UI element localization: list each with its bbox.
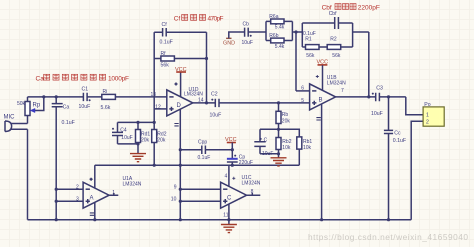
wire U1B output to C3	[336, 96, 406, 98]
svg-text:Cb: Cb	[243, 22, 250, 28]
capacitor C1 10uF	[79, 87, 91, 110]
capacitor C4 10uF	[112, 122, 133, 143]
resistor Rb1 10k	[297, 137, 313, 165]
op-amp U1B LM324N	[301, 75, 346, 110]
capacitor Cc 0.1uF	[384, 97, 406, 220]
annotation red text Cf	[174, 14, 224, 22]
svg-text:Po: Po	[424, 102, 430, 108]
svg-text:20k: 20k	[282, 118, 291, 124]
node X junction	[294, 30, 297, 33]
svg-text:9: 9	[174, 185, 177, 191]
resistor Rf 56k	[154, 51, 206, 69]
node: wiper joins signal wire	[42, 95, 45, 98]
svg-text:1000pF: 1000pF	[108, 75, 129, 82]
svg-text:10uF: 10uF	[79, 104, 91, 110]
resistor pair R6a/R6b 5.4k	[266, 14, 292, 50]
resistor Ri 5.6k	[101, 89, 116, 111]
svg-text:B: B	[319, 97, 323, 103]
resistor Rd1 20k	[136, 122, 151, 153]
U1D V+ stem + VCC	[180, 72, 182, 96]
resistor Rd2 20k	[152, 122, 167, 165]
capacitor C2 10uF	[210, 92, 222, 119]
U1C input wires from stem line	[180, 189, 220, 201]
svg-text:11: 11	[223, 212, 228, 218]
svg-text:5.4k: 5.4k	[275, 25, 285, 31]
svg-text:2200pF: 2200pF	[358, 5, 380, 12]
svg-text:6: 6	[301, 86, 304, 92]
svg-text:Cbf: Cbf	[322, 5, 332, 12]
C4/Rd1 bottom wire	[118, 143, 139, 145]
capacitor Cp 220uF	[227, 143, 253, 167]
svg-text:Cf: Cf	[162, 22, 168, 28]
op-amp U1A LM324N	[76, 176, 142, 208]
svg-text:C1: C1	[82, 87, 89, 93]
svg-text:Cc: Cc	[394, 130, 401, 136]
bias top wire	[260, 129, 299, 137]
wire U1D output to C2	[193, 102, 310, 104]
capacitor Cf 0.1uF	[154, 22, 206, 46]
svg-text:10uF: 10uF	[371, 111, 383, 117]
svg-text:10uF: 10uF	[242, 40, 253, 46]
GND stub to Cb	[229, 32, 245, 38]
U1A V+ stem from bias wire	[94, 165, 96, 188]
op-amp U1C LM324N	[171, 175, 261, 208]
wire corner down to connector pin 1	[406, 97, 423, 115]
C4/Rd1 top wire	[118, 121, 155, 123]
U1C V+ stem	[228, 165, 230, 186]
svg-text:LM324N: LM324N	[327, 81, 346, 87]
svg-text:56k: 56k	[306, 53, 315, 59]
capacitor C3 10uF	[371, 85, 383, 117]
svg-text:10uF: 10uF	[121, 135, 132, 141]
svg-text:56k: 56k	[161, 63, 170, 69]
svg-text:LM324N: LM324N	[184, 92, 203, 98]
svg-text:Cbf: Cbf	[329, 11, 337, 17]
svg-text:LM324N: LM324N	[123, 182, 142, 188]
wire Cb to R6 box	[248, 31, 266, 33]
svg-text:56k: 56k	[332, 53, 341, 59]
svg-text:LM324N: LM324N	[242, 181, 261, 187]
bias wire (VCC/2) long horizontal	[95, 164, 299, 166]
svg-text:5.6k: 5.6k	[101, 105, 111, 111]
U1B VCC	[317, 59, 329, 65]
VCC (bias)	[225, 137, 237, 143]
C/Rb2 bottom wire to ground	[260, 154, 279, 158]
svg-text:10: 10	[171, 197, 177, 203]
svg-text:10uF: 10uF	[210, 113, 222, 119]
microphone MIC	[4, 115, 28, 132]
node X vertical down to U1B pin 6	[295, 32, 297, 91]
wire top signal	[28, 96, 167, 98]
svg-text:13: 13	[151, 92, 157, 98]
svg-text:Rp: Rp	[33, 103, 41, 109]
U1B V- stem to rail	[321, 104, 323, 220]
Cbf / R1 R2 feedback box	[302, 11, 352, 59]
resistor Rb 20k	[276, 103, 290, 129]
svg-text:Rf: Rf	[161, 51, 167, 57]
svg-text:D: D	[177, 103, 182, 109]
svg-text:Ri: Ri	[103, 89, 108, 95]
svg-text:1: 1	[426, 113, 429, 119]
wire connector pin 2 down to rail	[411, 121, 423, 219]
svg-text:2: 2	[426, 119, 429, 125]
svg-text:R6b: R6b	[269, 33, 278, 39]
svg-text:10k: 10k	[282, 145, 291, 151]
U1B pin 6 stub	[296, 90, 310, 92]
svg-text:Ca: Ca	[36, 75, 45, 82]
ground (earth) under Rd1	[130, 154, 146, 162]
op-amp U1D LM324N	[151, 87, 204, 116]
capacitor C 10uF	[254, 129, 273, 157]
wire MIC bottom lead down to ground rail	[27, 129, 29, 219]
svg-text:R2: R2	[330, 36, 337, 42]
wire R6 box to node X	[292, 31, 302, 33]
wire MIC top lead up to signal wire	[27, 97, 29, 124]
capacitor Cb 10uF	[242, 22, 253, 46]
GND circled symbol	[223, 38, 235, 46]
resistor Rb2 10k	[276, 129, 292, 154]
svg-text:20k: 20k	[141, 137, 150, 143]
potentiometer Rp 50k	[17, 97, 44, 116]
svg-text:0.1uF: 0.1uF	[160, 40, 173, 46]
ground rail bottom	[28, 219, 412, 221]
svg-text:Cpp: Cpp	[198, 139, 207, 145]
U1C V- stem through rail to ground	[228, 204, 230, 224]
svg-text:10k: 10k	[303, 145, 312, 151]
svg-text:C2: C2	[211, 92, 218, 98]
annotation red text Cbf	[322, 4, 380, 12]
svg-text:MIC: MIC	[4, 115, 16, 121]
wire box to corner down to U1B output	[353, 32, 369, 97]
svg-text:0.1uF: 0.1uF	[62, 120, 75, 126]
svg-text:https://blog.csdn.net/weixin_4: https://blog.csdn.net/weixin_41659040	[308, 232, 468, 242]
U1A V- stem to rail	[94, 202, 96, 219]
svg-text:50k: 50k	[17, 101, 26, 107]
svg-text:220uF: 220uF	[239, 160, 253, 166]
svg-text:Cf: Cf	[174, 16, 181, 23]
annotation red text Ca	[36, 74, 130, 82]
svg-text:470pF: 470pF	[208, 16, 224, 23]
svg-text:20k: 20k	[157, 137, 166, 143]
U1D V- stem (pin 11) down to rail	[179, 109, 181, 220]
svg-text:A: A	[90, 195, 94, 201]
svg-text:4: 4	[225, 174, 228, 180]
svg-text:5.4k: 5.4k	[275, 44, 285, 50]
ground under U1C	[221, 225, 237, 233]
svg-text:R1: R1	[305, 36, 312, 42]
svg-text:GND: GND	[223, 41, 235, 47]
connector Po	[423, 102, 444, 126]
svg-text:R6a: R6a	[269, 14, 278, 20]
capacitor Cpp 0.1uF	[180, 139, 232, 161]
svg-text:C4: C4	[120, 127, 127, 133]
svg-text:5: 5	[301, 98, 304, 104]
svg-text:Ca: Ca	[63, 105, 70, 111]
U1D pin 12 stub from feedback line	[154, 108, 167, 110]
svg-text:Rb: Rb	[282, 112, 289, 118]
feedback right vertical to output	[206, 32, 208, 103]
ground (earth) bias	[271, 158, 287, 166]
svg-text:C: C	[264, 138, 268, 144]
capacitor Ca 0.1uF	[52, 97, 75, 220]
U1C output stub pin 8	[247, 193, 261, 195]
U1A input wires	[56, 189, 83, 201]
svg-text:0.1uF: 0.1uF	[393, 138, 406, 144]
svg-text:0.1uF: 0.1uF	[198, 155, 211, 161]
feedback line left vertical (Cf/Rf box)	[153, 32, 155, 122]
U1A output stub pin 1	[109, 193, 118, 195]
svg-text:C: C	[227, 195, 232, 201]
svg-text:7: 7	[341, 88, 344, 94]
svg-text:C3: C3	[376, 85, 383, 91]
